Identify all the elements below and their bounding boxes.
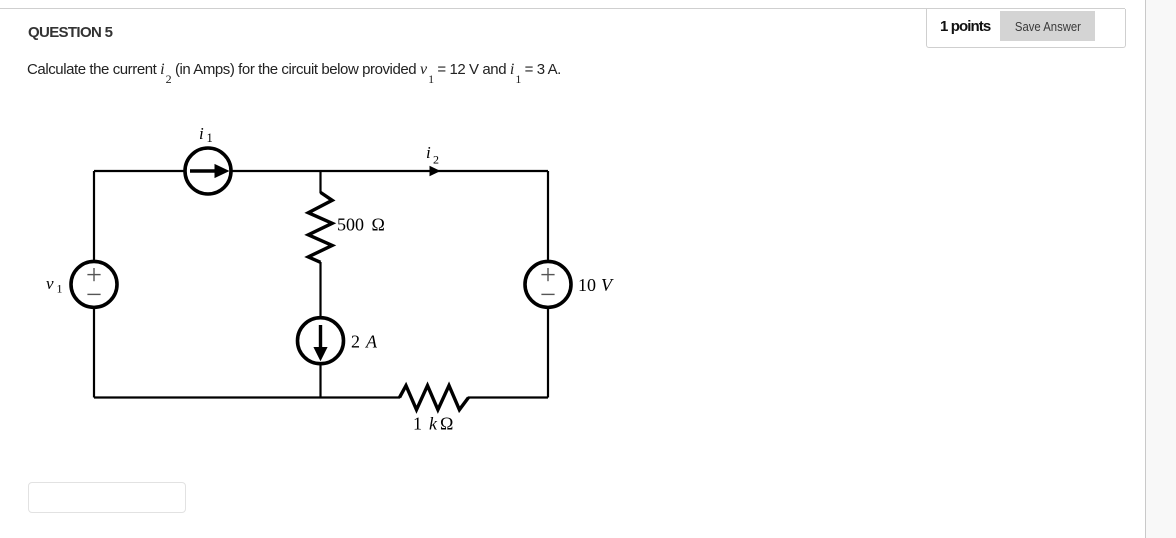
wire top-left segment (left corner to current source I1) [94,170,186,172]
wire bottom-left segment [94,396,400,398]
points / save answer box [926,9,1126,48]
svg-text:1: 1 [413,414,422,434]
current arrow i2 on top wire [430,166,441,177]
resistor 1 kohm (horizontal zigzag) [400,386,469,410]
current source I1 (circle with right arrow) [185,148,231,194]
svg-text:V: V [601,275,614,295]
svg-text:2: 2 [351,332,360,352]
label i1 [199,124,213,145]
wire left branch upper [93,171,95,260]
wire right branch upper [547,171,549,260]
svg-text:i: i [426,143,431,162]
question text [27,61,561,79]
label v1 [46,274,63,296]
label 1 kohm [413,414,453,434]
svg-text:1: 1 [57,282,63,296]
answer input box [28,482,186,513]
wire right branch lower [547,309,549,398]
svg-text:Ω: Ω [372,215,385,235]
svg-text:v: v [46,274,54,293]
question header [28,24,112,41]
voltage source V1 (circle with plus / minus) [71,261,117,307]
voltage source 10V (circle with plus / minus) [525,261,571,307]
svg-text:10: 10 [578,275,596,295]
wire top-right segment (current source I1 to top-right corner) [230,170,548,172]
label 2 A [351,332,378,352]
right page divider / sidebar [1145,0,1176,538]
wire bottom-right segment [468,396,548,398]
svg-text:1: 1 [207,131,213,145]
label 10 V [578,275,614,295]
svg-text:500: 500 [337,215,364,235]
svg-text:i: i [199,124,204,143]
svg-text:Ω: Ω [440,414,453,434]
svg-text:2: 2 [433,153,439,167]
wire middle branch between resistor and 2A source [319,262,321,316]
svg-text:A: A [365,332,378,352]
resistor 500 ohm (vertical zigzag) [308,192,332,262]
svg-text:k: k [429,414,438,434]
label i2 [426,143,439,167]
wire middle branch bottom stub [319,365,321,398]
top divider line [0,8,1125,9]
wire left branch lower [93,309,95,398]
wire middle branch top stub [319,171,321,193]
circuit schematic [0,0,700,470]
current source 2A (circle with down arrow) [298,318,344,364]
